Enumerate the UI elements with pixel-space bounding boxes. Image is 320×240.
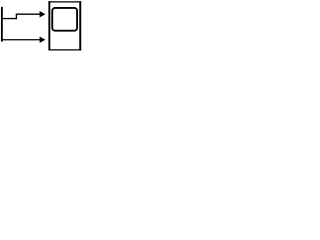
scope block outer box left edge [48, 1, 50, 50]
wire 1 step vertical [15, 14, 17, 20]
arrowhead 1 [40, 11, 46, 17]
scope screen inner rounded square [52, 8, 77, 31]
scope block outer box top edge [48, 1, 81, 3]
wire 1 upper segment [16, 13, 40, 15]
arrowhead 2 [40, 37, 46, 43]
scope block outer box right edge [79, 1, 81, 50]
wire 1 lower segment [3, 18, 17, 20]
scope block outer box bottom edge [48, 49, 81, 51]
wire 2 [3, 39, 41, 41]
mux bar block (clipped at left edge) [1, 7, 3, 42]
background [0, 0, 83, 52]
